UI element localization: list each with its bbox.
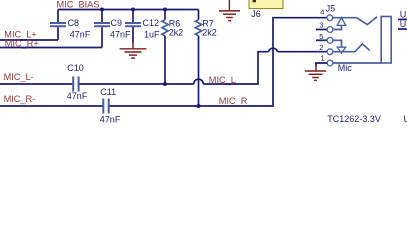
jack plug body rectangle: [381, 17, 391, 64]
svg-text:47nF: 47nF: [67, 91, 88, 101]
jack tip contact V: [357, 17, 378, 25]
svg-text:MIC_R-: MIC_R-: [4, 94, 36, 104]
junction dot (C9/MIC_BIAS): [100, 7, 104, 11]
svg-text:2: 2: [319, 43, 323, 52]
capacitor C12: [125, 10, 141, 44]
svg-text:C12: C12: [143, 18, 160, 28]
svg-text:4: 4: [320, 7, 324, 16]
junction dot (R7/MIC_R): [196, 104, 200, 108]
wire MIC_L : left segment to C10: [0, 83, 72, 85]
wire hop over MIC_R vertical: [268, 48, 277, 51]
svg-text:J5: J5: [326, 4, 336, 14]
svg-text:1uF: 1uF: [144, 29, 160, 39]
svg-text:2k2: 2k2: [202, 27, 217, 37]
svg-text:MIC_L-: MIC_L-: [4, 72, 34, 82]
svg-text:MIC_R: MIC_R: [219, 96, 248, 106]
svg-text:1: 1: [321, 54, 325, 63]
svg-text:MIC_BIAS: MIC_BIAS: [57, 0, 100, 9]
switch arrow down (pin 5): [337, 47, 346, 53]
svg-text:U: U: [404, 114, 407, 124]
svg-text:TC1262-3.3V: TC1262-3.3V: [327, 114, 381, 124]
svg-text:47nF: 47nF: [110, 30, 131, 40]
wire MIC_BIAS bus: [58, 9, 199, 11]
svg-text:J6: J6: [251, 9, 261, 19]
svg-text:C10: C10: [67, 63, 84, 73]
svg-text:Mic: Mic: [338, 63, 352, 73]
wire sleeve line from pin 1: [333, 62, 381, 64]
wire MIC_L+: [0, 39, 58, 41]
wire hop over R7 lead: [194, 79, 204, 84]
svg-text:2k2: 2k2: [169, 27, 184, 37]
svg-text:C11: C11: [100, 87, 116, 97]
pin 3 circle: [327, 27, 333, 33]
svg-text:3: 3: [319, 20, 323, 29]
pin 3 switch wire: [333, 25, 342, 29]
svg-text:U: U: [400, 9, 407, 19]
wire MIC_L : C10 to hop over R7: [79, 83, 193, 85]
junction dot (R6/MIC_L): [163, 82, 167, 86]
svg-text:47nF: 47nF: [70, 29, 91, 39]
pin 3 stub: [316, 29, 327, 31]
wire MIC_L : hop to corner, up to pin2 row: [203, 52, 268, 84]
wire MIC_L : hop to pin 2: [278, 51, 327, 53]
pin 1 wire to ground: [316, 63, 327, 67]
resistor R6: [162, 10, 168, 85]
jack ring contact: [355, 44, 370, 52]
J6 pin mark: [253, 0, 257, 2]
wire ring line from pin 2: [333, 51, 355, 53]
connector J6 body: [249, 0, 283, 9]
svg-text:C8: C8: [68, 18, 80, 28]
pin 5 circle: [327, 37, 333, 43]
wire MIC_R+: [0, 47, 102, 49]
capacitor C10: [73, 77, 78, 92]
wire MIC_R : C11 to corner at jack, up to pin 4: [110, 18, 328, 106]
wire stub upper right: [398, 18, 407, 20]
power port GND top right: [219, 0, 240, 21]
switch arrow up (pin 3): [337, 17, 346, 25]
capacitor C8: [50, 10, 66, 41]
capacitor C9: [94, 10, 110, 48]
power port GND at mic pin: [305, 66, 327, 80]
pin 2 circle: [327, 49, 333, 55]
svg-text:C9: C9: [111, 18, 123, 28]
wire MIC_R : left segment to C11: [0, 105, 103, 107]
pin 5 switch wire: [333, 40, 342, 47]
svg-text:47nF: 47nF: [100, 114, 121, 124]
pin 1 circle: [327, 60, 333, 66]
svg-text:U: U: [400, 19, 407, 29]
resistor R7: [195, 10, 201, 107]
pin 5 stub: [316, 39, 327, 41]
wire tip line from pin 4: [333, 17, 357, 19]
pin 4 circle: [327, 15, 333, 21]
power port GND below C12: [120, 43, 147, 59]
junction dot (R6/MIC_BIAS): [163, 7, 167, 11]
junction dot (C12/MIC_BIAS): [131, 7, 135, 11]
capacitor C11: [103, 99, 108, 114]
wire stub lower right: [398, 28, 407, 30]
